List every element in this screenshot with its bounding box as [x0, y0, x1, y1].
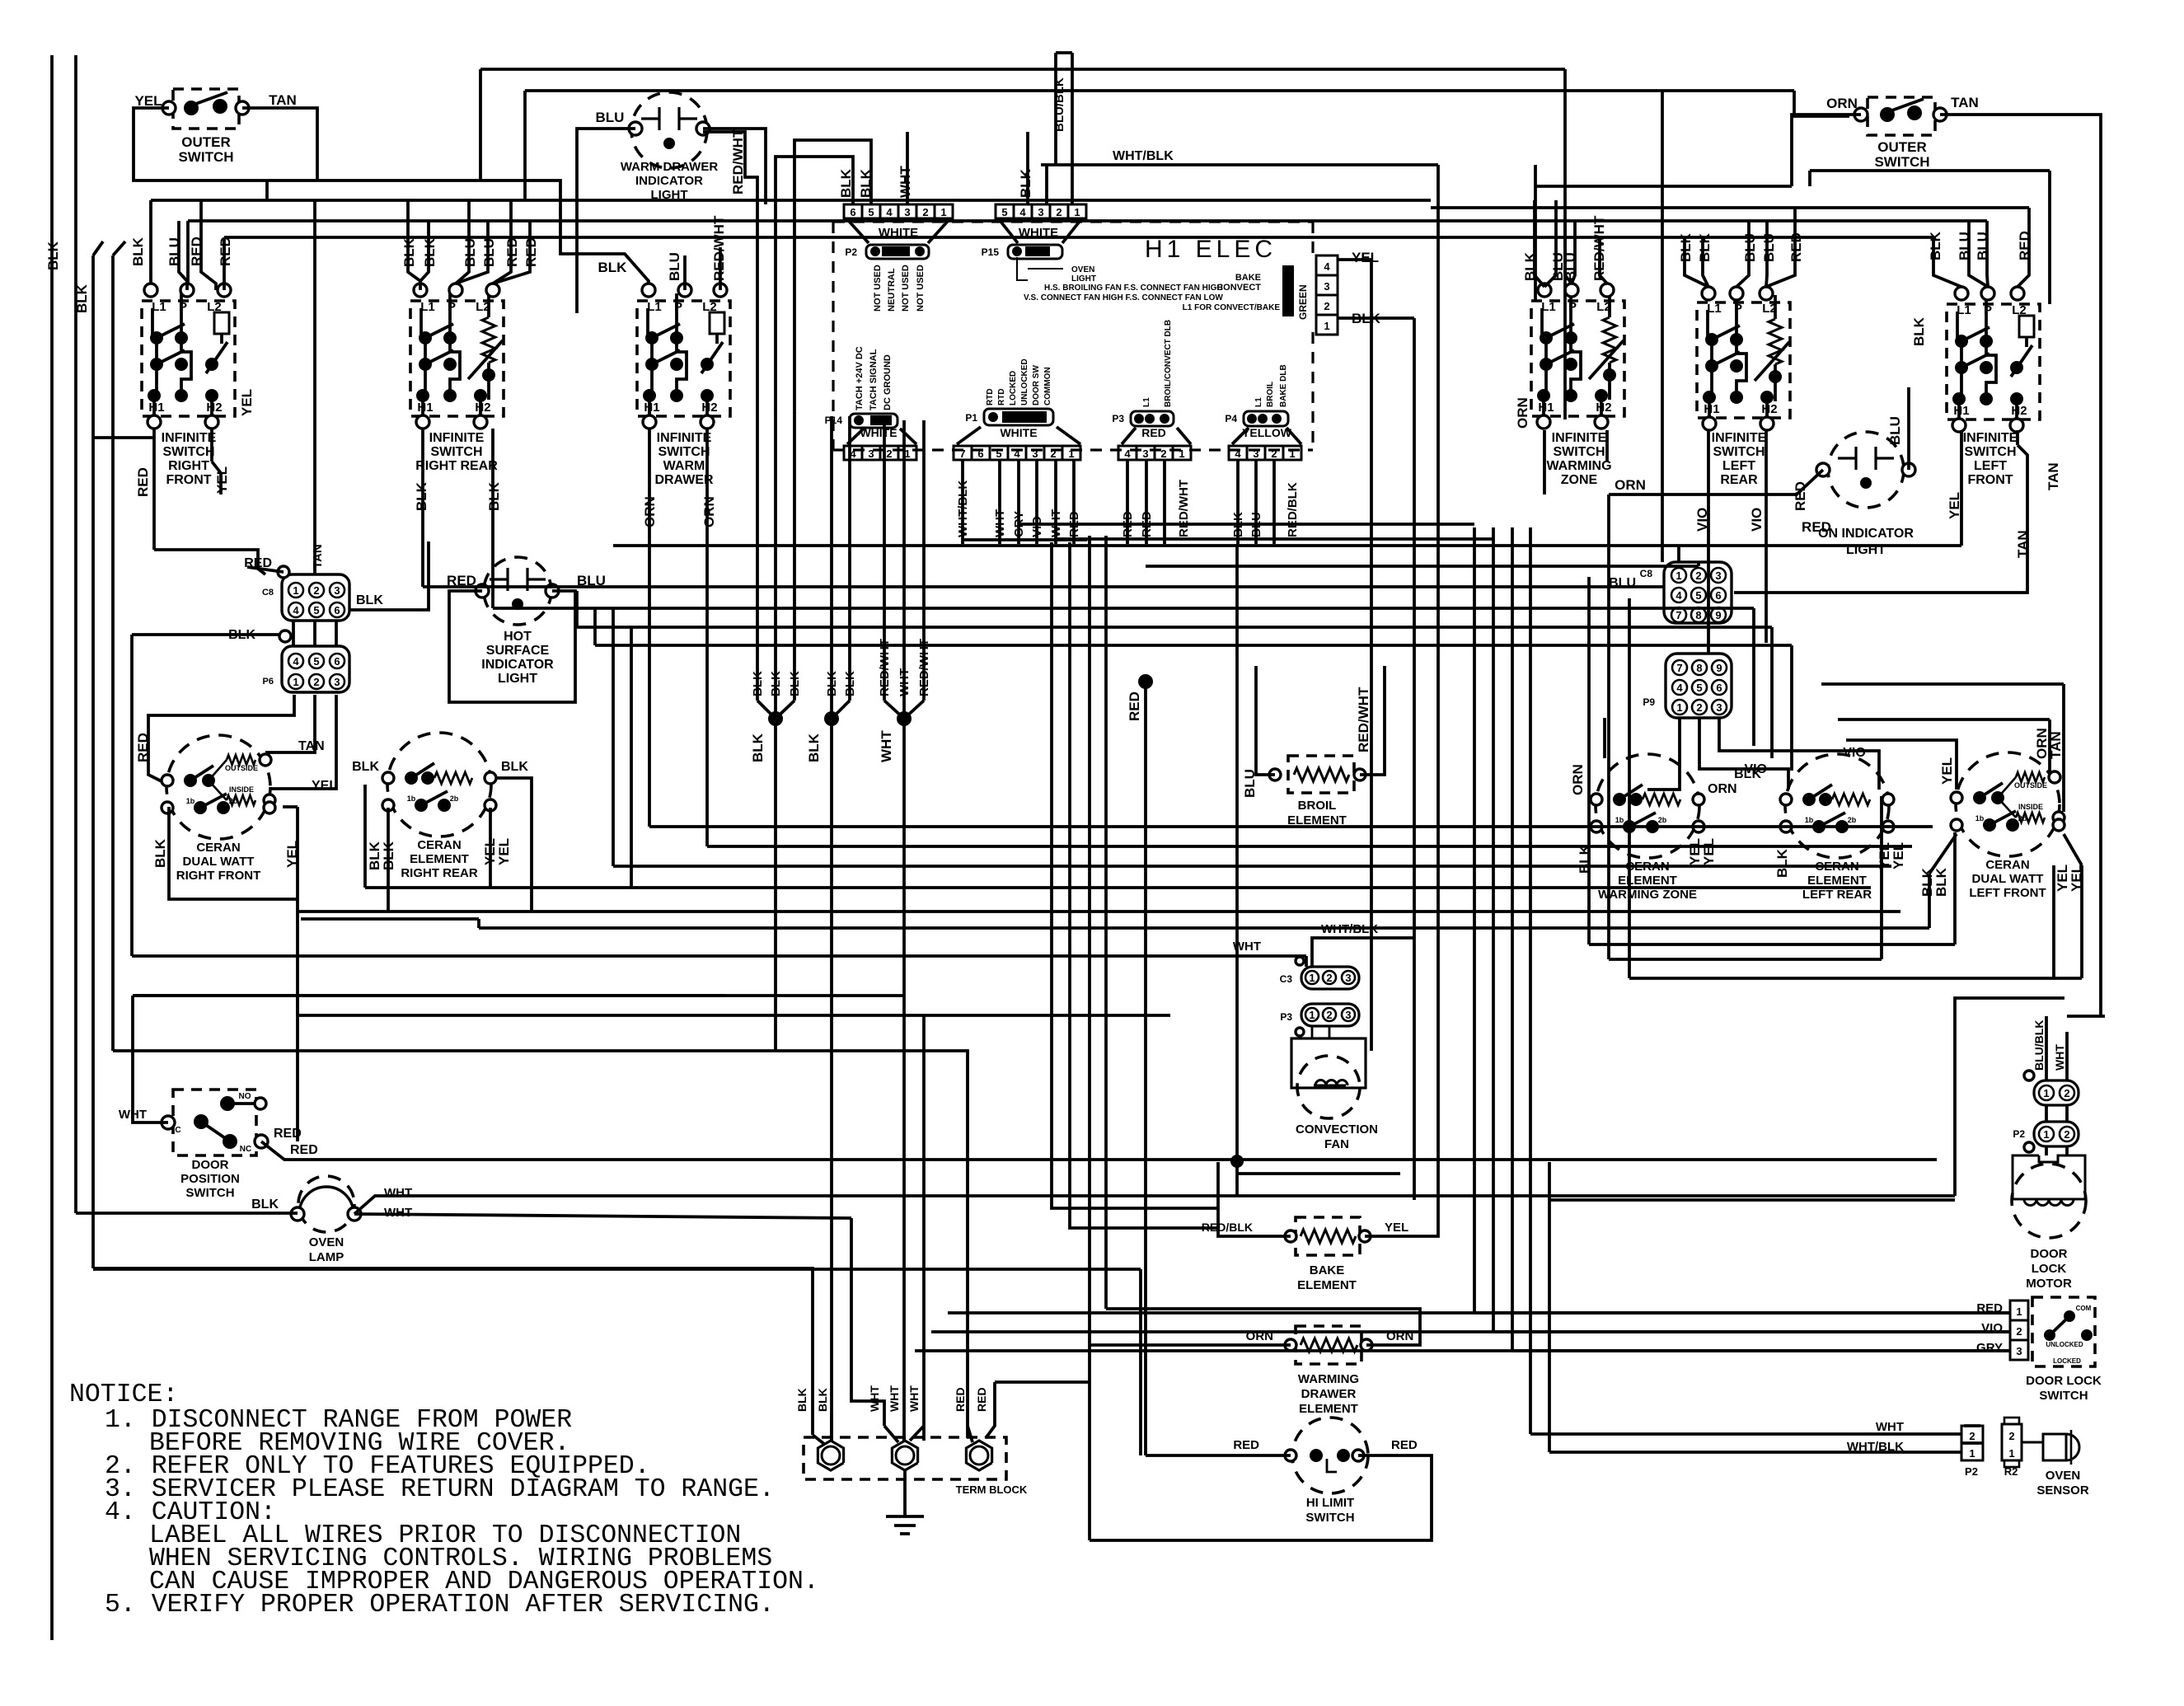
svg-text:VIO: VIO [1749, 508, 1765, 532]
svg-text:H2: H2 [206, 401, 222, 415]
svg-text:SWITCH: SWITCH [162, 445, 214, 459]
svg-text:INFINITE: INFINITE [1712, 431, 1767, 445]
svg-text:5: 5 [313, 604, 319, 616]
svg-text:RIGHT FRONT: RIGHT FRONT [176, 869, 261, 883]
svg-text:2: 2 [2064, 1087, 2069, 1099]
svg-text:RIGHT: RIGHT [168, 459, 209, 473]
svg-text:WARMING: WARMING [1546, 459, 1611, 473]
svg-text:RED: RED [1391, 1438, 1418, 1452]
svg-text:NOT USED: NOT USED [916, 265, 926, 312]
svg-text:1b: 1b [407, 794, 416, 803]
svg-text:7: 7 [1675, 609, 1681, 621]
svg-text:CONVECTION: CONVECTION [1296, 1122, 1378, 1137]
svg-text:OUTSIDE: OUTSIDE [225, 764, 258, 772]
svg-text:WHT: WHT [2053, 1044, 2066, 1071]
svg-text:ELEMENT: ELEMENT [410, 852, 469, 866]
svg-text:BLK: BLK [251, 1197, 279, 1212]
svg-text:6: 6 [850, 206, 855, 218]
svg-text:YEL: YEL [1701, 838, 1717, 865]
svg-text:4: 4 [1014, 448, 1020, 460]
svg-text:BLK: BLK [352, 760, 379, 774]
svg-text:BLK: BLK [795, 1388, 808, 1412]
svg-text:LOCK: LOCK [2032, 1262, 2067, 1276]
svg-text:BLU: BLU [667, 252, 682, 281]
svg-text:6: 6 [334, 604, 340, 616]
svg-text:1b: 1b [186, 797, 195, 805]
svg-text:RED: RED [135, 733, 151, 762]
svg-text:INFINITE: INFINITE [1552, 431, 1607, 445]
svg-text:BLK: BLK [45, 241, 61, 270]
svg-text:3: 3 [1716, 701, 1722, 714]
svg-text:REAR: REAR [1720, 473, 1758, 487]
svg-text:ELEMENT: ELEMENT [1297, 1278, 1357, 1292]
svg-text:H1 ELEC: H1 ELEC [1145, 236, 1277, 263]
svg-text:DOOR SW: DOOR SW [1032, 365, 1041, 405]
svg-text:VIO: VIO [1843, 746, 1866, 760]
svg-text:2b: 2b [2018, 814, 2027, 823]
svg-text:P2: P2 [2013, 1128, 2025, 1140]
svg-text:2b: 2b [1658, 816, 1667, 824]
svg-text:1: 1 [940, 206, 946, 218]
svg-text:1: 1 [2043, 1128, 2049, 1141]
svg-text:WARM: WARM [663, 459, 705, 473]
svg-text:BLK: BLK [1933, 867, 1949, 897]
svg-text:3: 3 [1324, 280, 1329, 293]
svg-text:DOOR: DOOR [192, 1158, 229, 1172]
svg-text:NOT USED: NOT USED [901, 265, 911, 312]
svg-text:1b: 1b [1615, 816, 1624, 824]
svg-text:INDICATOR: INDICATOR [481, 658, 554, 672]
svg-text:INSIDE: INSIDE [2018, 803, 2043, 811]
svg-text:SURFACE: SURFACE [486, 644, 550, 658]
svg-text:C: C [175, 1126, 180, 1135]
svg-text:L1: L1 [1142, 397, 1151, 407]
svg-text:P3: P3 [1280, 1011, 1292, 1023]
svg-text:DOOR LOCK: DOOR LOCK [2026, 1374, 2102, 1388]
svg-text:C3: C3 [1280, 973, 1293, 985]
svg-text:1: 1 [2043, 1087, 2049, 1099]
svg-text:YELLOW: YELLOW [1242, 426, 1292, 439]
svg-text:5. VERIFY PROPER OPERATION AFT: 5. VERIFY PROPER OPERATION AFTER SERVICI… [105, 1591, 775, 1619]
svg-text:ZONE: ZONE [1561, 473, 1598, 487]
svg-text:DUAL WATT: DUAL WATT [1972, 872, 2044, 886]
svg-text:LIGHT: LIGHT [651, 188, 688, 202]
svg-text:BLK: BLK [1018, 168, 1033, 198]
svg-text:P2: P2 [1965, 1465, 1978, 1478]
svg-text:H2: H2 [475, 401, 490, 415]
svg-text:YEL: YEL [1385, 1221, 1408, 1235]
svg-text:BLK: BLK [1734, 767, 1761, 781]
svg-text:BLK: BLK [130, 237, 146, 266]
svg-text:INFINITE: INFINITE [162, 431, 217, 445]
svg-text:RED: RED [1233, 1438, 1259, 1452]
svg-text:2: 2 [313, 676, 319, 688]
svg-text:DRAWER: DRAWER [654, 473, 714, 487]
svg-text:LEFT REAR: LEFT REAR [1802, 888, 1872, 902]
svg-text:FAN: FAN [1324, 1137, 1349, 1151]
svg-text:3: 3 [1715, 569, 1721, 582]
svg-text:YEL: YEL [239, 389, 255, 416]
svg-text:WHT: WHT [1876, 1420, 1904, 1434]
svg-text:3: 3 [1142, 448, 1148, 460]
svg-text:BLK: BLK [501, 760, 528, 774]
svg-text:BLK: BLK [152, 838, 168, 868]
svg-text:TERM BLOCK: TERM BLOCK [956, 1483, 1028, 1496]
svg-text:2: 2 [1326, 1009, 1332, 1021]
svg-text:2: 2 [1324, 300, 1329, 312]
svg-text:1: 1 [1324, 320, 1329, 332]
svg-text:6: 6 [1716, 682, 1722, 694]
svg-text:5: 5 [1695, 589, 1701, 602]
svg-text:3: 3 [1345, 972, 1351, 984]
svg-text:GREEN: GREEN [1297, 284, 1309, 320]
svg-text:NEUTRAL: NEUTRAL [887, 268, 897, 312]
svg-text:HI LIMIT: HI LIMIT [1306, 1496, 1354, 1510]
svg-text:FRONT: FRONT [166, 473, 211, 487]
svg-text:4: 4 [1124, 448, 1131, 460]
svg-text:RED: RED [135, 467, 151, 497]
svg-text:WHT: WHT [898, 166, 913, 198]
svg-text:H2: H2 [1761, 402, 1777, 416]
svg-text:1b: 1b [1975, 814, 1985, 823]
svg-text:INFINITE: INFINITE [1963, 431, 2018, 445]
svg-text:BLK: BLK [806, 733, 822, 762]
svg-text:3: 3 [868, 448, 874, 460]
svg-text:YEL: YEL [496, 838, 512, 865]
svg-text:3: 3 [1032, 448, 1038, 460]
svg-text:LAMP: LAMP [309, 1250, 344, 1264]
svg-text:4: 4 [1019, 206, 1026, 218]
svg-text:LEFT: LEFT [1974, 459, 2007, 473]
svg-text:LIGHT: LIGHT [1071, 274, 1096, 284]
svg-text:6: 6 [977, 448, 983, 460]
svg-text:RED/WHT: RED/WHT [1356, 687, 1371, 752]
svg-text:1: 1 [1289, 448, 1295, 460]
svg-text:NC: NC [240, 1145, 251, 1154]
svg-text:RED: RED [1127, 691, 1142, 721]
svg-text:DRAWER: DRAWER [1301, 1387, 1357, 1401]
svg-text:1: 1 [2016, 1305, 2022, 1318]
svg-text:LOCKED: LOCKED [1009, 371, 1018, 405]
svg-text:1: 1 [293, 584, 298, 597]
svg-text:1: 1 [1969, 1447, 1975, 1460]
svg-text:3: 3 [1253, 448, 1258, 460]
svg-text:7: 7 [959, 448, 965, 460]
svg-text:BLK: BLK [1928, 231, 1943, 260]
svg-text:SWITCH: SWITCH [1713, 445, 1765, 459]
svg-text:5: 5 [1001, 206, 1007, 218]
svg-text:2: 2 [922, 206, 928, 218]
svg-text:RED/WHT: RED/WHT [1177, 480, 1191, 537]
svg-text:SWITCH: SWITCH [2039, 1389, 2088, 1403]
svg-text:BLK: BLK [598, 260, 628, 275]
svg-text:V.S. CONNECT FAN HIGH F.S. CON: V.S. CONNECT FAN HIGH F.S. CONNECT FAN L… [1024, 293, 1223, 302]
svg-text:2: 2 [1326, 972, 1332, 984]
svg-text:UNLOCKED: UNLOCKED [1020, 359, 1029, 405]
svg-text:RTD: RTD [986, 388, 995, 405]
svg-text:OVEN: OVEN [2046, 1469, 2081, 1483]
svg-text:GRY: GRY [1976, 1341, 2003, 1355]
svg-text:SWITCH: SWITCH [1305, 1511, 1354, 1525]
svg-text:INDICATOR: INDICATOR [635, 174, 703, 188]
svg-text:YEL: YEL [1352, 250, 1379, 265]
svg-text:1: 1 [1676, 701, 1682, 714]
svg-text:NOTICE:: NOTICE: [69, 1380, 178, 1409]
svg-text:SWITCH: SWITCH [1553, 445, 1605, 459]
svg-text:SWITCH: SWITCH [185, 1186, 234, 1200]
svg-text:FRONT: FRONT [1967, 473, 2013, 487]
svg-text:4: 4 [293, 604, 299, 616]
svg-text:RED: RED [954, 1387, 967, 1412]
svg-text:COM: COM [2076, 1305, 2092, 1312]
svg-text:SWITCH: SWITCH [1874, 154, 1929, 170]
svg-text:3: 3 [904, 206, 910, 218]
svg-text:3: 3 [334, 584, 340, 597]
svg-text:SWITCH: SWITCH [658, 445, 710, 459]
svg-text:TACH SIGNAL: TACH SIGNAL [869, 349, 879, 410]
svg-text:2b: 2b [450, 794, 459, 803]
svg-text:CONVECT: CONVECT [1216, 283, 1261, 293]
svg-text:3: 3 [2016, 1345, 2022, 1357]
svg-text:ORN: ORN [1515, 397, 1530, 429]
svg-text:2: 2 [313, 584, 319, 597]
svg-text:ELEMENT: ELEMENT [1807, 874, 1867, 888]
svg-text:C8: C8 [1640, 568, 1653, 579]
svg-text:6: 6 [1715, 589, 1721, 602]
svg-text:RIGHT REAR: RIGHT REAR [401, 866, 478, 880]
svg-text:BLK: BLK [750, 733, 766, 762]
svg-text:2: 2 [2008, 1430, 2014, 1442]
svg-text:L1 FOR CONVECT/BAKE: L1 FOR CONVECT/BAKE [1183, 303, 1281, 312]
svg-text:NO: NO [239, 1092, 251, 1101]
svg-text:POSITION: POSITION [180, 1172, 240, 1186]
svg-text:7: 7 [1676, 662, 1682, 674]
svg-text:RIGHT REAR: RIGHT REAR [415, 459, 498, 473]
svg-text:1: 1 [2008, 1447, 2014, 1460]
svg-text:RED: RED [290, 1143, 318, 1157]
svg-text:HOT: HOT [504, 630, 532, 644]
svg-text:1: 1 [1309, 972, 1315, 984]
svg-text:LEFT FRONT: LEFT FRONT [1969, 886, 2046, 900]
svg-text:DUAL WATT: DUAL WATT [183, 855, 255, 869]
svg-text:4: 4 [886, 206, 893, 218]
svg-text:LIGHT: LIGHT [498, 672, 537, 686]
svg-text:2b: 2b [229, 797, 238, 805]
svg-text:DC GROUND: DC GROUND [883, 354, 893, 410]
svg-text:COMMON: COMMON [1043, 367, 1052, 405]
svg-text:RED: RED [1793, 481, 1808, 511]
svg-text:WHT: WHT [868, 1385, 881, 1412]
svg-text:TAN: TAN [298, 739, 325, 753]
svg-text:H2: H2 [1596, 401, 1611, 415]
svg-text:C8: C8 [262, 588, 274, 598]
svg-text:L1: L1 [1254, 397, 1263, 407]
svg-text:BLU: BLU [596, 110, 625, 125]
svg-text:1: 1 [1309, 1009, 1315, 1021]
svg-text:2: 2 [2064, 1128, 2069, 1141]
svg-text:SWITCH: SWITCH [430, 445, 482, 459]
svg-text:TAN: TAN [269, 92, 297, 108]
svg-text:LEFT: LEFT [1722, 459, 1755, 473]
svg-text:BAKE: BAKE [1235, 273, 1261, 283]
svg-text:4: 4 [1676, 682, 1683, 694]
svg-text:BLK: BLK [356, 593, 383, 607]
svg-text:ORN: ORN [1826, 96, 1858, 111]
svg-text:BLK: BLK [1911, 316, 1927, 346]
svg-text:TAN: TAN [1951, 95, 1979, 110]
svg-text:WHITE: WHITE [1000, 426, 1037, 439]
svg-text:OUTSIDE: OUTSIDE [2014, 781, 2047, 790]
svg-text:H1: H1 [1704, 402, 1719, 416]
svg-text:WHITE: WHITE [860, 426, 897, 439]
svg-text:P14: P14 [825, 415, 843, 426]
svg-text:2: 2 [2016, 1325, 2022, 1338]
svg-text:BLK: BLK [816, 1388, 829, 1412]
svg-text:SENSOR: SENSOR [2036, 1483, 2089, 1497]
svg-text:ORN: ORN [701, 496, 717, 527]
svg-text:2: 2 [1696, 701, 1702, 714]
svg-text:H1: H1 [417, 401, 433, 415]
svg-text:INFINITE: INFINITE [429, 431, 485, 445]
svg-text:5: 5 [868, 206, 874, 218]
svg-text:P9: P9 [1643, 696, 1655, 708]
svg-text:BAKE: BAKE [1310, 1263, 1345, 1277]
svg-text:P2: P2 [845, 246, 857, 258]
svg-text:8: 8 [1695, 609, 1701, 621]
svg-text:2: 2 [1160, 448, 1166, 460]
svg-text:2: 2 [1050, 448, 1056, 460]
svg-text:WHT: WHT [888, 1385, 901, 1412]
svg-text:2b: 2b [1848, 816, 1857, 824]
svg-text:LOCKED: LOCKED [2053, 1357, 2081, 1365]
svg-text:BLU: BLU [1887, 416, 1903, 445]
svg-text:BAKE DLB: BAKE DLB [1279, 364, 1288, 407]
svg-text:4: 4 [1675, 589, 1682, 602]
svg-text:5: 5 [996, 448, 1001, 460]
svg-text:P1: P1 [965, 412, 977, 424]
svg-text:9: 9 [1715, 609, 1721, 621]
svg-text:ELEMENT: ELEMENT [1618, 874, 1677, 888]
svg-text:BLK: BLK [74, 284, 90, 313]
svg-text:MOTOR: MOTOR [2026, 1277, 2072, 1291]
svg-text:P15: P15 [982, 246, 1000, 258]
svg-text:2: 2 [1271, 448, 1277, 460]
svg-text:P4: P4 [1225, 413, 1237, 424]
svg-text:5: 5 [313, 655, 319, 668]
svg-text:TACH +24V DC: TACH +24V DC [855, 346, 865, 410]
svg-text:CERAN: CERAN [196, 841, 240, 855]
svg-text:H1: H1 [1953, 404, 1969, 418]
svg-text:WHT/BLK: WHT/BLK [1113, 149, 1174, 163]
svg-text:9: 9 [1716, 662, 1722, 674]
svg-text:OVEN: OVEN [309, 1235, 344, 1249]
svg-text:WARMING: WARMING [1298, 1372, 1359, 1386]
svg-text:SWITCH: SWITCH [1964, 445, 2016, 459]
svg-text:8: 8 [1696, 662, 1702, 674]
svg-text:WARMING ZONE: WARMING ZONE [1598, 888, 1697, 902]
svg-text:WHT: WHT [384, 1186, 412, 1200]
svg-text:RED: RED [975, 1387, 988, 1412]
svg-text:BROIL/CONVECT DLB: BROIL/CONVECT DLB [1164, 320, 1173, 407]
svg-text:H1: H1 [148, 401, 164, 415]
svg-text:UNLOCKED: UNLOCKED [2046, 1341, 2083, 1348]
svg-text:2: 2 [886, 448, 892, 460]
svg-text:YEL: YEL [312, 779, 337, 793]
svg-text:BLK: BLK [1774, 848, 1790, 878]
svg-text:RED/BLK: RED/BLK [1286, 482, 1300, 537]
svg-text:1: 1 [1675, 569, 1681, 582]
svg-text:3: 3 [334, 676, 340, 688]
svg-text:TAN: TAN [311, 544, 325, 569]
svg-text:H2: H2 [701, 401, 717, 415]
svg-text:BLU/BLK: BLU/BLK [2032, 1020, 2046, 1071]
svg-text:H1: H1 [1538, 401, 1554, 415]
svg-text:SWITCH: SWITCH [178, 149, 233, 165]
svg-text:ELEMENT: ELEMENT [1299, 1402, 1358, 1416]
svg-text:BROIL: BROIL [1298, 799, 1337, 813]
svg-text:P6: P6 [263, 677, 274, 687]
svg-text:1: 1 [1074, 206, 1080, 218]
svg-text:RTD: RTD [997, 388, 1006, 405]
svg-text:RED: RED [1141, 426, 1166, 439]
svg-text:OVEN: OVEN [1071, 265, 1094, 274]
svg-text:BLU: BLU [1761, 233, 1777, 262]
svg-text:WHT: WHT [907, 1385, 921, 1412]
svg-text:4: 4 [293, 655, 299, 668]
svg-text:ORN: ORN [1708, 782, 1737, 796]
svg-text:OUTER: OUTER [1877, 139, 1927, 155]
svg-text:1b: 1b [1805, 816, 1814, 824]
svg-text:BLK: BLK [1697, 232, 1713, 262]
svg-text:4: 4 [1324, 260, 1330, 273]
svg-text:P3: P3 [1112, 413, 1124, 424]
svg-text:TAN: TAN [2046, 462, 2061, 490]
svg-text:5: 5 [1696, 682, 1702, 694]
svg-text:H.S. BROILING FAN F.S. CONNECT: H.S. BROILING FAN F.S. CONNECT FAN HIGH [1044, 284, 1223, 293]
svg-text:4: 4 [1235, 448, 1241, 460]
svg-text:H2: H2 [2011, 404, 2027, 418]
svg-text:YEL: YEL [1939, 757, 1955, 785]
svg-text:CERAN: CERAN [1985, 858, 2029, 872]
svg-text:OUTER: OUTER [181, 134, 231, 150]
svg-text:2: 2 [1056, 206, 1062, 218]
svg-text:WARM DRAWER: WARM DRAWER [621, 160, 718, 174]
svg-text:INFINITE: INFINITE [657, 431, 712, 445]
svg-text:DOOR: DOOR [2031, 1247, 2068, 1261]
svg-text:ON INDICATOR: ON INDICATOR [1818, 527, 1914, 541]
svg-text:H1: H1 [644, 401, 659, 415]
svg-text:INSIDE: INSIDE [229, 785, 254, 794]
svg-text:1: 1 [1179, 448, 1184, 460]
svg-text:2: 2 [1969, 1430, 1975, 1442]
svg-text:BLU/BLK: BLU/BLK [1052, 77, 1066, 132]
svg-text:6: 6 [334, 655, 340, 668]
svg-text:NOT USED: NOT USED [873, 265, 883, 312]
svg-text:ORN: ORN [1570, 764, 1586, 795]
svg-text:WHT: WHT [879, 730, 894, 762]
svg-text:3: 3 [1345, 1009, 1351, 1021]
svg-text:1: 1 [293, 676, 298, 688]
svg-text:2: 2 [1695, 569, 1701, 582]
svg-text:CERAN: CERAN [417, 838, 461, 852]
svg-text:3: 3 [1038, 206, 1043, 218]
svg-text:BROIL: BROIL [1266, 382, 1275, 407]
svg-text:ORN: ORN [1615, 477, 1646, 493]
svg-text:1: 1 [1068, 448, 1074, 460]
